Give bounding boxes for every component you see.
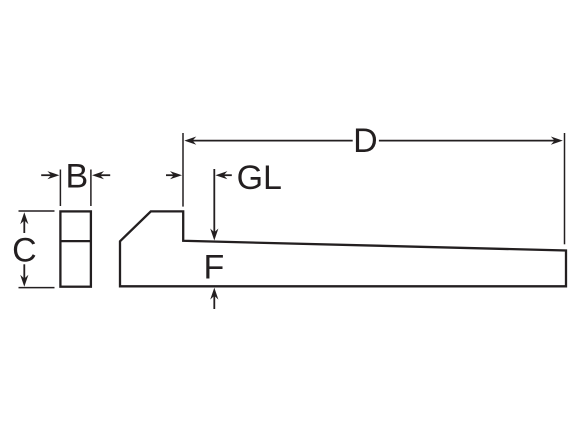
dimension GL left arrow bbox=[166, 171, 182, 179]
cross-section rectangle (end view) bbox=[60, 211, 91, 286]
dimension D left extension line bbox=[182, 133, 184, 207]
svg-text:GL: GL bbox=[237, 159, 282, 197]
dimension GL tick line with down arrow to blade edge bbox=[210, 169, 218, 241]
svg-text:C: C bbox=[12, 232, 37, 270]
dimension D right extension line bbox=[564, 133, 566, 244]
dimension C line lower segment with down arrow bbox=[20, 264, 28, 287]
cross-section divider line bbox=[60, 240, 91, 242]
dimension C bottom extension line bbox=[19, 287, 55, 289]
dimension D line left segment with left arrow bbox=[184, 137, 352, 145]
dimension GL right arrow bbox=[215, 171, 231, 179]
dimension B extension line right bbox=[90, 170, 92, 207]
dimension B right arrow bbox=[92, 171, 110, 179]
dimension C top extension line bbox=[19, 210, 55, 212]
main blade outline (side view) bbox=[120, 211, 566, 286]
dimension F up arrow below blade bbox=[210, 288, 218, 309]
dimension B extension line left bbox=[59, 170, 61, 207]
svg-text:D: D bbox=[353, 122, 378, 160]
svg-text:F: F bbox=[204, 248, 225, 286]
svg-text:B: B bbox=[65, 158, 88, 196]
dimension D line right segment with right arrow bbox=[379, 137, 563, 145]
dimension C line upper segment with up arrow bbox=[20, 212, 28, 233]
dimension B left arrow bbox=[41, 171, 59, 179]
